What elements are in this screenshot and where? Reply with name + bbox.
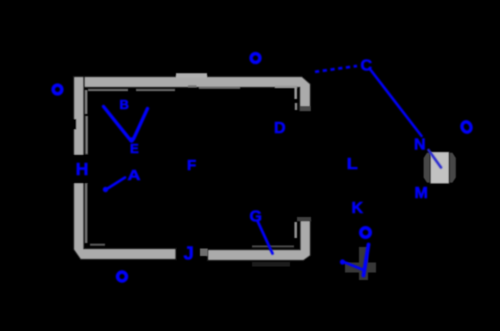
pointer line from A — [106, 178, 125, 190]
chamber left wall + bottom-left wall segment — [74, 77, 177, 260]
svg-text:G: G — [250, 208, 262, 225]
pump flow arrow horizontal — [343, 262, 363, 270]
inner lip at top-right corner — [275, 86, 297, 99]
pointer line from G — [258, 222, 273, 254]
chamber lid bump on top wall — [176, 73, 207, 78]
label Q ring bottom-left — [118, 272, 127, 281]
pump tube cross vertical — [359, 247, 368, 280]
svg-text:F: F — [187, 157, 196, 174]
notch on left wall — [72, 119, 76, 130]
chamber top wall + upper right wall segment — [76, 77, 311, 111]
dark cap on lower right wall — [297, 217, 311, 221]
inner lining dash below top wall 4 — [199, 87, 240, 89]
inner lining dash below top wall 2 — [136, 89, 175, 91]
svg-text:J: J — [184, 243, 194, 264]
svg-text:M: M — [415, 185, 428, 202]
beam from C to N — [370, 69, 422, 137]
pump tube cross horizontal — [345, 263, 376, 273]
svg-text:N: N — [414, 137, 426, 154]
inner lining strip along left wall (upper) — [85, 90, 87, 114]
label P ring above pump — [361, 228, 370, 237]
svg-text:L: L — [347, 156, 358, 173]
inner lip at bottom-right corner — [294, 222, 297, 238]
svg-text:B: B — [120, 97, 129, 112]
chamber bottom wall right segment + lower right wall segment — [208, 221, 311, 261]
detector left wedge — [424, 153, 431, 183]
inner lining dash below top wall 1 — [88, 89, 128, 91]
detector body — [430, 152, 449, 184]
pump flow arrow blob — [340, 260, 345, 265]
label O ring outside top-left — [53, 85, 62, 94]
inner lining dash above bottom wall left — [90, 244, 105, 246]
inner lip dash below top-right corner — [295, 103, 297, 110]
shadow under bottom wall — [252, 262, 290, 267]
svg-text:E: E — [130, 141, 139, 156]
black patch behind label H — [72, 155, 90, 184]
right wall upper segment dark tip — [300, 106, 311, 111]
inner lining strip along left wall (lower) — [85, 183, 87, 243]
arrow blob at end of A pointer — [103, 187, 108, 192]
ray line V right branch — [134, 109, 148, 140]
label O italic right — [460, 121, 472, 134]
dashed beam from top-right corner to C — [315, 66, 357, 72]
inner lining dash below top wall 3 — [188, 85, 197, 87]
inner lining strip along left wall (middle) — [85, 116, 87, 154]
ray junction blob — [129, 138, 134, 143]
inner lining dash above bottom wall right — [252, 245, 294, 247]
label P ring above top wall — [251, 54, 260, 63]
pump flow vertical stroke — [364, 245, 369, 276]
svg-text:D: D — [274, 120, 286, 137]
detector right wedge — [449, 153, 456, 183]
ray line V left branch — [104, 107, 130, 140]
beam from N into detector — [429, 150, 442, 168]
svg-text:K: K — [352, 200, 364, 217]
svg-text:H: H — [76, 159, 89, 179]
svg-text:A: A — [128, 167, 141, 184]
plug at bottom aperture — [200, 249, 208, 257]
